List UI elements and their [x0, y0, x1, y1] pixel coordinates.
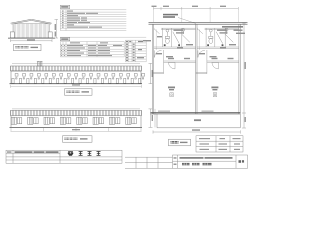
gable right dimension: [55, 20, 59, 39]
plan terrace: [157, 114, 240, 128]
gable bottom dimension: [11, 39, 53, 42]
south elevation wall edges: [10, 116, 12, 128]
finish table text: [67, 42, 122, 56]
north elevation vent pipes: [37, 62, 43, 66]
plan annotation storage space: [163, 14, 178, 18]
plan north eave double line: [149, 21, 248, 23]
south elevation post ticks: [11, 127, 141, 131]
note strip left: [6, 150, 122, 163]
plan south wall: [151, 112, 241, 114]
plan right dimension: [242, 23, 246, 128]
spec table text rows: [62, 11, 102, 28]
legend table text: [126, 41, 144, 61]
plan bathroom fixtures unit2: [209, 29, 234, 44]
plan interior partitions unit1: [152, 28, 195, 74]
gable elevation roof: [11, 19, 52, 24]
gable elevation corner box right: [48, 32, 52, 38]
gable ground line: [8, 37, 55, 39]
plan interior partitions unit2: [196, 28, 239, 74]
plan closet marks: [170, 93, 217, 97]
plan interior dim chains: [156, 29, 199, 50]
finish table top rule: [60, 36, 146, 38]
finish table grid: [60, 42, 124, 57]
south elevation bottom dim: [72, 129, 80, 130]
south elevation fascia band: [11, 110, 142, 115]
gable elevation wall hatch: [13, 24, 50, 38]
north elevation eave line: [11, 70, 142, 72]
north elevation fascia band: [11, 66, 142, 71]
plan unit walls vertical: [152, 24, 240, 113]
finish table header box: [60, 38, 70, 41]
finish table row digits: [61, 45, 65, 56]
legend table: [125, 40, 146, 62]
label box gable elevation: [14, 44, 42, 50]
north elevation bottom dim: [72, 84, 80, 85]
north elevation ridge line: [12, 62, 140, 64]
plan bathroom fixtures unit1: [165, 29, 190, 44]
plan inner door arcs: [169, 62, 219, 69]
plan annotation texts: [143, 30, 245, 60]
plan unit north walls: [154, 28, 239, 34]
north elevation ground line: [10, 83, 143, 85]
label box north elevation: [65, 89, 93, 95]
south elevation right dim: [149, 109, 156, 128]
label box south elevation: [63, 136, 93, 142]
note strip text: [7, 151, 12, 153]
gable elevation corner box left: [10, 32, 14, 38]
south elevation ridge line: [12, 108, 140, 110]
plan bottom dimension: [153, 130, 240, 133]
spec table header box: [60, 5, 70, 8]
north elevation right dim: [149, 63, 153, 83]
plan top dimension: [154, 7, 239, 22]
spec table grid: [60, 10, 126, 31]
plan stair note: [222, 26, 243, 28]
south elevation ground line: [10, 126, 143, 128]
title block right: [125, 155, 248, 168]
south elevation windows: [11, 117, 136, 124]
north elevation wall edges: [10, 71, 12, 84]
plan entry door arcs: [155, 50, 205, 57]
plan south wall window labels: [158, 111, 214, 112]
saku city logo: [67, 151, 73, 155]
saku city text: [79, 151, 101, 155]
area table: [196, 136, 243, 152]
north elevation door/window units: [12, 74, 145, 84]
plan room labels: [168, 87, 218, 91]
plan label box: [169, 139, 191, 146]
